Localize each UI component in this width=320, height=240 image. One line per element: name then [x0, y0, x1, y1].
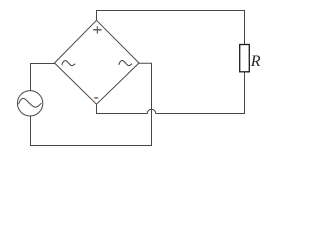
svg-text:R: R — [250, 53, 261, 70]
